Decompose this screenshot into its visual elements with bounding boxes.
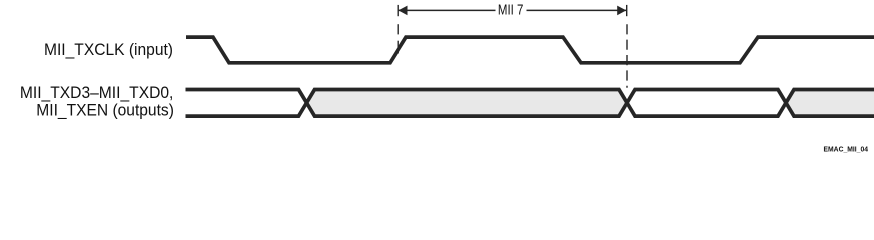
bus segment 3 outline (white) [627, 90, 786, 117]
bus segment 2 outline (gray) [307, 90, 628, 117]
svg-text:EMAC_MII_04: EMAC_MII_04 [824, 145, 869, 154]
bus segment 4 outline (gray) [786, 90, 874, 117]
dashed line at MII7 left edge [397, 24, 399, 34]
svg-text:MII_TXD3–MII_TXD0,: MII_TXD3–MII_TXD0, [20, 83, 174, 102]
dimension arrow line left part [398, 9, 495, 11]
right arrowhead [617, 6, 626, 16]
bus segment 1 outline (white) [186, 90, 307, 117]
left extension tick [397, 5, 399, 16]
bus segment 4 fill (gray, clipped at right edge) [786, 90, 874, 117]
svg-text:MII_TXEN (outputs): MII_TXEN (outputs) [36, 101, 174, 120]
left arrowhead [399, 6, 408, 16]
right extension tick [626, 5, 628, 16]
dashed line at MII7 right edge [626, 24, 628, 88]
svg-text:MII 7: MII 7 [498, 2, 524, 18]
svg-text:MII_TXCLK (input): MII_TXCLK (input) [44, 40, 173, 59]
dimension arrow line right part [527, 9, 627, 11]
bus segment 2 fill (gray) [307, 90, 628, 117]
clock waveform MII_TXCLK [186, 37, 874, 63]
